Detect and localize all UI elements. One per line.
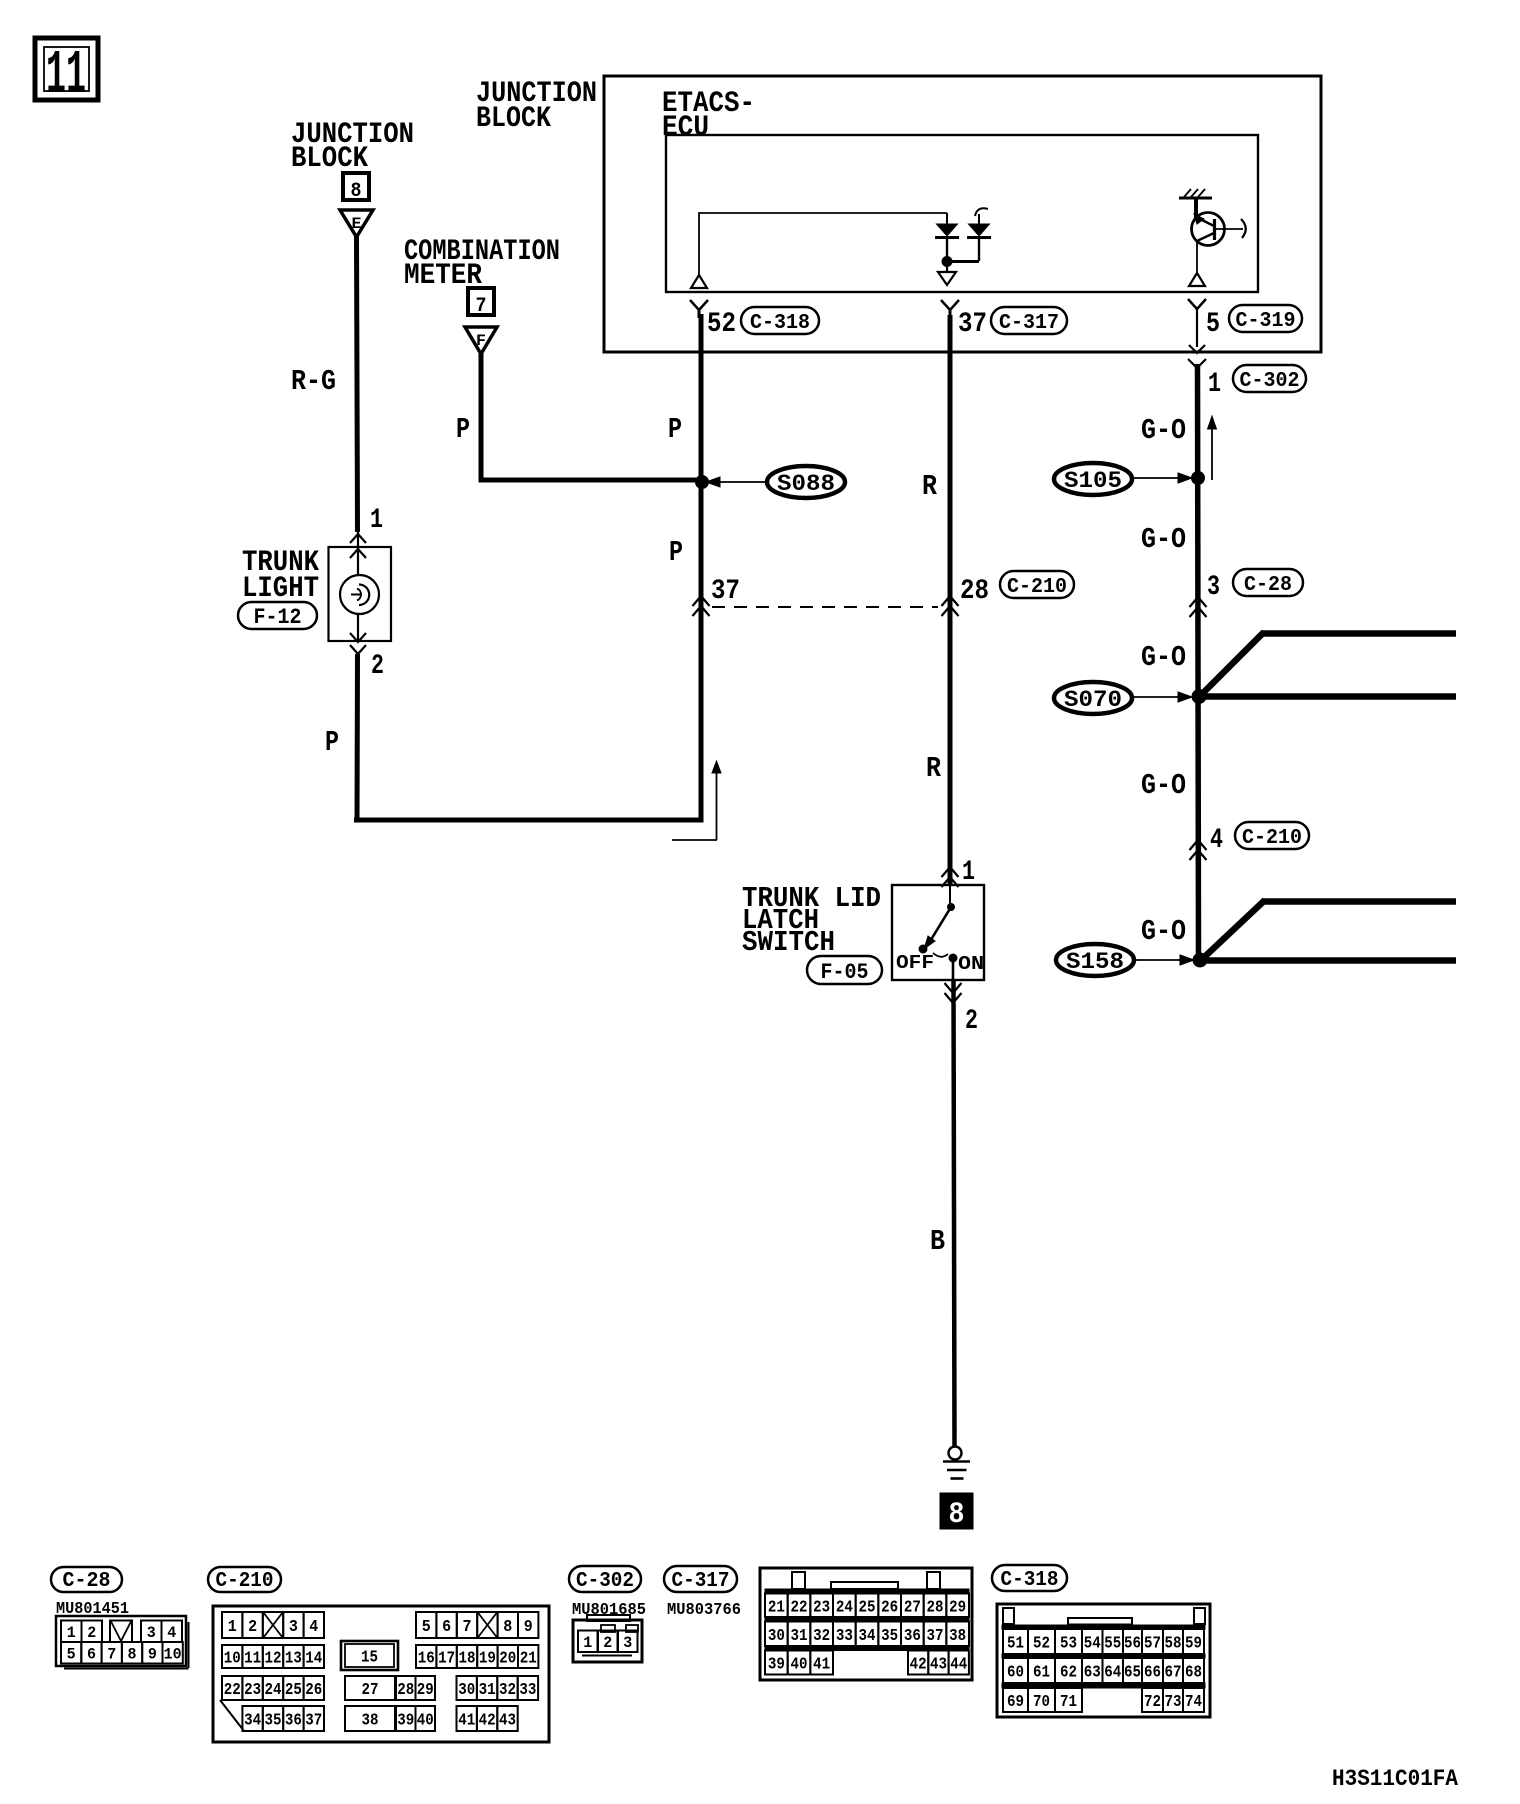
wire P from trunk light down	[355, 654, 361, 823]
label 52 C-318	[707, 307, 819, 340]
svg-text:S105: S105	[1064, 468, 1122, 494]
svg-text:72: 72	[1144, 1693, 1161, 1712]
svg-text:25: 25	[285, 1681, 302, 1700]
svg-text:27: 27	[904, 1598, 921, 1617]
crossing chevrons C-28	[1190, 597, 1207, 617]
connector C-28 body	[56, 1616, 189, 1669]
connector C-210 pins row 3	[222, 1676, 538, 1700]
crossing chevrons on R wire	[942, 596, 959, 616]
junction block outer box	[604, 76, 1321, 352]
svg-text:34: 34	[859, 1627, 876, 1646]
svg-text:13: 13	[285, 1650, 302, 1669]
svg-text:B: B	[930, 1225, 945, 1258]
svg-text:21: 21	[768, 1598, 785, 1617]
svg-text:19: 19	[479, 1650, 496, 1669]
label 37 C-317	[958, 307, 1067, 340]
svg-text:F-12: F-12	[254, 605, 302, 630]
svg-text:70: 70	[1033, 1693, 1050, 1712]
diode D2 with pigtail	[950, 208, 991, 261]
svg-text:4: 4	[309, 1618, 318, 1637]
svg-text:9: 9	[148, 1646, 157, 1664]
svg-text:61: 61	[1033, 1664, 1050, 1683]
svg-text:C-318: C-318	[1001, 1569, 1059, 1592]
svg-text:28: 28	[960, 576, 989, 607]
junction block label (left)	[291, 118, 414, 176]
svg-text:1: 1	[228, 1618, 237, 1637]
svg-text:OFF: OFF	[896, 952, 934, 974]
svg-text:G-O: G-O	[1141, 769, 1186, 802]
svg-text:30: 30	[768, 1627, 785, 1646]
svg-text:C-319: C-319	[1236, 310, 1296, 333]
connector C-210 pins row 2	[222, 1641, 538, 1670]
svg-text:5: 5	[422, 1618, 431, 1637]
svg-text:5: 5	[67, 1646, 76, 1664]
ground reference box 8	[940, 1493, 973, 1532]
svg-text:43: 43	[930, 1656, 947, 1675]
svg-text:22: 22	[791, 1598, 808, 1617]
svg-text:C-210: C-210	[1242, 827, 1302, 850]
svg-text:38: 38	[362, 1712, 379, 1731]
svg-text:2: 2	[248, 1618, 257, 1637]
connector label F-05	[807, 956, 882, 984]
svg-text:33: 33	[519, 1681, 536, 1700]
svg-text:7: 7	[463, 1618, 472, 1637]
svg-text:E: E	[352, 215, 362, 233]
ETACS-ECU inner box	[666, 135, 1258, 292]
svg-text:7: 7	[107, 1646, 116, 1664]
svg-text:23: 23	[244, 1681, 261, 1700]
connector C-302 pins	[578, 1631, 638, 1653]
svg-text:17: 17	[438, 1650, 455, 1669]
svg-text:4: 4	[167, 1624, 176, 1642]
svg-text:24: 24	[265, 1681, 282, 1700]
svg-text:6: 6	[87, 1646, 96, 1664]
splice S070 with branch wires	[1054, 632, 1456, 714]
trunk lid latch switch box	[892, 885, 984, 980]
transistor base pigtail	[1216, 219, 1246, 238]
svg-text:3: 3	[147, 1624, 156, 1642]
svg-text:20: 20	[499, 1650, 516, 1669]
connector C-28 label	[51, 1567, 122, 1592]
wire B to ground	[954, 981, 955, 1447]
transistor Q1	[1192, 198, 1225, 246]
svg-text:3: 3	[1207, 572, 1220, 603]
svg-text:24: 24	[836, 1598, 853, 1617]
svg-text:23: 23	[813, 1598, 830, 1617]
svg-text:S070: S070	[1064, 687, 1122, 713]
svg-text:P: P	[456, 413, 470, 446]
svg-text:F-05: F-05	[821, 960, 869, 985]
svg-text:S088: S088	[777, 471, 835, 497]
svg-text:29: 29	[949, 1598, 966, 1617]
svg-text:P: P	[669, 536, 683, 569]
label 5 C-319	[1206, 305, 1302, 340]
label TRUNK LIGHT	[242, 546, 319, 606]
page number box 11	[35, 38, 98, 111]
connector C-210 body	[213, 1606, 549, 1742]
connector C-318 body	[997, 1604, 1210, 1717]
wire R from ETACS pin 37	[948, 315, 953, 886]
label 4 C-210	[1210, 822, 1309, 856]
svg-text:1: 1	[370, 505, 383, 536]
svg-text:40: 40	[417, 1712, 434, 1731]
svg-text:34: 34	[244, 1712, 261, 1731]
svg-text:10: 10	[164, 1646, 182, 1664]
trunk light bulb	[340, 532, 379, 642]
svg-text:C-210: C-210	[1007, 576, 1067, 599]
svg-text:28: 28	[927, 1598, 944, 1617]
svg-text:58: 58	[1165, 1635, 1182, 1654]
svg-text:8: 8	[351, 180, 362, 203]
connector C-210 label	[208, 1567, 281, 1592]
svg-text:16: 16	[418, 1650, 435, 1669]
svg-text:SWITCH: SWITCH	[742, 926, 835, 959]
connector C-317 pins row 2	[765, 1617, 969, 1646]
svg-text:C-317: C-317	[999, 312, 1059, 335]
svg-text:G-O: G-O	[1141, 641, 1186, 674]
splice S158 with branch wires	[1056, 900, 1456, 976]
svg-text:C-302: C-302	[576, 1570, 634, 1593]
svg-text:31: 31	[479, 1681, 496, 1700]
continuation arrow near corner	[672, 761, 721, 840]
label 1 C-302	[1208, 365, 1306, 400]
triangle terminal F	[465, 327, 497, 354]
svg-text:37: 37	[711, 576, 740, 607]
svg-text:G-O: G-O	[1141, 915, 1186, 948]
triangle terminal E	[340, 210, 373, 237]
svg-text:35: 35	[881, 1627, 898, 1646]
svg-text:1: 1	[583, 1634, 592, 1652]
svg-text:63: 63	[1084, 1664, 1101, 1683]
svg-text:1: 1	[67, 1624, 76, 1642]
ground symbol	[943, 1447, 970, 1479]
connector C-318 pins row 1	[1002, 1625, 1205, 1654]
svg-text:35: 35	[265, 1712, 282, 1731]
svg-text:68: 68	[1185, 1664, 1202, 1683]
svg-text:53: 53	[1060, 1635, 1077, 1654]
svg-text:9: 9	[524, 1618, 533, 1637]
svg-text:26: 26	[305, 1681, 322, 1700]
switch contacts and lever	[919, 885, 958, 981]
svg-text:36: 36	[904, 1627, 921, 1646]
svg-text:6: 6	[442, 1618, 451, 1637]
svg-text:3: 3	[623, 1634, 632, 1652]
svg-text:28: 28	[397, 1681, 414, 1700]
svg-text:59: 59	[1185, 1635, 1202, 1654]
svg-text:P: P	[325, 726, 339, 759]
svg-text:1: 1	[1208, 369, 1221, 400]
internal pin triangle (pin 52)	[691, 275, 707, 288]
svg-text:H3S11C01FA: H3S11C01FA	[1332, 1766, 1458, 1792]
pin 37 connector symbol	[941, 300, 959, 310]
svg-text:67: 67	[1165, 1664, 1182, 1683]
svg-text:52: 52	[1033, 1635, 1050, 1654]
splice S088	[695, 466, 845, 498]
svg-text:56: 56	[1124, 1635, 1141, 1654]
connector C-302 body	[573, 1615, 642, 1662]
svg-text:74: 74	[1185, 1693, 1202, 1712]
svg-text:8: 8	[503, 1618, 512, 1637]
connector C-317 pins row 1	[765, 1589, 969, 1617]
crossing chevrons C-210 right	[1190, 840, 1207, 860]
svg-text:BLOCK: BLOCK	[476, 102, 551, 136]
connector chevrons at trunk light pin 1	[350, 534, 366, 558]
svg-text:11: 11	[46, 40, 86, 111]
connector C-318 pins row 2	[1002, 1654, 1205, 1683]
wire R-G from junction block to trunk light	[357, 236, 358, 532]
svg-text:MU801685: MU801685	[572, 1601, 646, 1620]
svg-text:66: 66	[1144, 1664, 1161, 1683]
svg-text:1: 1	[962, 857, 975, 888]
wire vertical riser to S088	[699, 314, 704, 823]
svg-text:37: 37	[958, 309, 987, 340]
svg-text:57: 57	[1144, 1635, 1161, 1654]
connector C-210 pins row 1	[222, 1612, 538, 1638]
wire bottom horizontal run	[354, 818, 704, 823]
svg-text:G-O: G-O	[1141, 523, 1186, 556]
svg-text:BLOCK: BLOCK	[291, 142, 368, 176]
svg-text:40: 40	[791, 1656, 808, 1675]
svg-text:2: 2	[371, 651, 384, 682]
svg-text:ECU: ECU	[662, 111, 709, 145]
svg-text:8: 8	[949, 1498, 965, 1532]
junction block label (top)	[476, 77, 597, 136]
svg-text:41: 41	[458, 1712, 475, 1731]
trunk lid latch switch label	[742, 882, 881, 959]
continuation arrow upward	[1208, 416, 1217, 480]
dashed connector link C-210	[712, 606, 938, 608]
svg-text:22: 22	[224, 1681, 241, 1700]
svg-text:32: 32	[813, 1627, 830, 1646]
connector C-318 label	[992, 1565, 1067, 1591]
connector chevrons at latch switch pin 2	[945, 983, 962, 1003]
wire P from combination meter	[479, 353, 702, 483]
crossing chevrons on P wire	[693, 596, 710, 616]
svg-text:36: 36	[285, 1712, 302, 1731]
svg-text:73: 73	[1165, 1693, 1182, 1712]
internal pin triangle (pin 5)	[1189, 241, 1205, 286]
svg-text:65: 65	[1124, 1664, 1141, 1683]
transistor Q1 internal ground mark	[1179, 189, 1212, 198]
svg-text:ON: ON	[958, 953, 984, 975]
svg-text:21: 21	[520, 1650, 537, 1669]
svg-text:25: 25	[859, 1598, 876, 1617]
svg-text:31: 31	[791, 1627, 808, 1646]
svg-text:52: 52	[707, 309, 736, 340]
svg-text:64: 64	[1104, 1664, 1121, 1683]
ETACS-ECU label	[662, 87, 755, 145]
svg-text:71: 71	[1060, 1693, 1077, 1712]
connector C-28 pins	[61, 1621, 183, 1664]
node junction of diodes	[942, 256, 953, 267]
wire G-O main vertical	[1198, 364, 1199, 963]
svg-text:18: 18	[459, 1650, 476, 1669]
svg-text:55: 55	[1104, 1635, 1121, 1654]
connector chevrons at trunk light pin 2	[350, 633, 366, 654]
svg-text:S158: S158	[1066, 949, 1124, 975]
connector label F-12	[238, 602, 317, 629]
connector chevrons at latch switch pin 1	[942, 867, 959, 887]
svg-text:15: 15	[361, 1649, 378, 1668]
svg-text:39: 39	[768, 1656, 785, 1675]
svg-text:R: R	[922, 470, 938, 503]
svg-text:C-210: C-210	[216, 1570, 274, 1593]
connector C-317 body	[760, 1568, 972, 1680]
internal wire to pin 52	[699, 213, 947, 276]
svg-text:37: 37	[927, 1627, 944, 1646]
label 28 C-210	[960, 571, 1074, 607]
svg-text:R-G: R-G	[291, 365, 336, 398]
connector C-318 pins row 3	[1002, 1683, 1205, 1712]
svg-text:32: 32	[499, 1681, 516, 1700]
pin 52 connector symbol	[690, 300, 708, 310]
connector C-302 label	[569, 1566, 641, 1592]
svg-text:4: 4	[1210, 825, 1223, 856]
svg-text:37: 37	[305, 1712, 322, 1731]
connector C-28 keyway	[110, 1621, 132, 1643]
svg-text:43: 43	[499, 1712, 516, 1731]
connector C-317 label	[664, 1566, 737, 1592]
svg-text:11: 11	[244, 1650, 261, 1669]
svg-text:44: 44	[950, 1656, 967, 1675]
svg-text:C-317: C-317	[672, 1570, 730, 1593]
svg-text:MU803766: MU803766	[667, 1601, 741, 1620]
connector crossing C-302 at box edge	[1188, 345, 1206, 368]
svg-text:38: 38	[949, 1627, 966, 1646]
connector C-317 pins row 3	[765, 1646, 969, 1675]
svg-text:39: 39	[397, 1712, 414, 1731]
svg-text:27: 27	[362, 1681, 379, 1700]
svg-text:42: 42	[910, 1656, 927, 1675]
svg-text:62: 62	[1060, 1664, 1077, 1683]
svg-text:51: 51	[1007, 1635, 1024, 1654]
svg-text:F: F	[476, 332, 486, 350]
svg-text:C-302: C-302	[1240, 370, 1300, 393]
connector C-210 pins row 4	[242, 1706, 517, 1731]
pin 5 connector symbol	[1188, 299, 1206, 347]
splice S105	[1054, 463, 1205, 495]
svg-text:30: 30	[458, 1681, 475, 1700]
svg-text:29: 29	[417, 1681, 434, 1700]
svg-text:2: 2	[603, 1634, 612, 1652]
svg-text:8: 8	[128, 1646, 137, 1664]
svg-text:C-28: C-28	[63, 1570, 111, 1593]
svg-text:26: 26	[881, 1598, 898, 1617]
combination meter connector box 7	[468, 288, 494, 318]
svg-text:69: 69	[1007, 1693, 1024, 1712]
combination meter label	[404, 235, 560, 293]
svg-text:C-28: C-28	[1244, 574, 1292, 597]
svg-text:C-318: C-318	[750, 312, 810, 335]
svg-text:33: 33	[836, 1627, 853, 1646]
svg-text:14: 14	[305, 1650, 322, 1669]
svg-text:2: 2	[87, 1624, 96, 1642]
svg-text:10: 10	[224, 1650, 241, 1669]
junction block connector box 8	[343, 173, 369, 203]
svg-text:3: 3	[289, 1618, 298, 1637]
trunk light component box	[329, 547, 392, 641]
svg-text:2: 2	[965, 1006, 978, 1037]
svg-text:12: 12	[265, 1650, 282, 1669]
svg-text:54: 54	[1084, 1635, 1101, 1654]
svg-text:60: 60	[1007, 1664, 1024, 1683]
svg-text:42: 42	[479, 1712, 496, 1731]
svg-text:41: 41	[813, 1656, 830, 1675]
svg-text:R: R	[926, 752, 942, 785]
svg-text:5: 5	[1206, 309, 1220, 340]
svg-text:7: 7	[476, 295, 487, 318]
label 3 C-28	[1207, 569, 1303, 603]
internal pin triangle (pin 37)	[938, 267, 956, 285]
svg-text:G-O: G-O	[1141, 414, 1186, 447]
diode D1	[935, 213, 959, 260]
svg-text:P: P	[668, 413, 682, 446]
